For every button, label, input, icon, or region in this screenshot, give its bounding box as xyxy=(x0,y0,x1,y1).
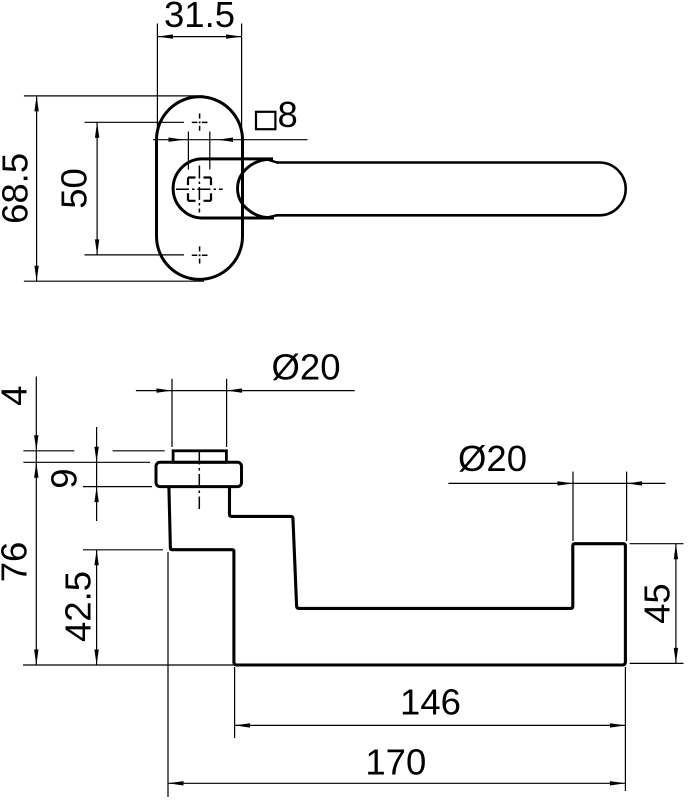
screw hole cross bottom xyxy=(192,246,208,263)
svg-text:45: 45 xyxy=(637,583,678,624)
dimension 146 xyxy=(235,667,626,791)
dimension 170 xyxy=(168,552,625,797)
svg-text:8: 8 xyxy=(278,94,298,135)
square spindle hole (hidden/dashed) xyxy=(188,178,211,201)
dimension 4/76 line xyxy=(35,377,37,666)
svg-text:76: 76 xyxy=(0,542,35,583)
dimension 45 xyxy=(630,544,684,664)
dimension Ø20 left xyxy=(136,379,355,447)
svg-text:Ø20: Ø20 xyxy=(458,438,527,479)
center lines of square hole xyxy=(176,166,223,213)
collar center line xyxy=(198,452,200,510)
dimension square-8 xyxy=(153,132,308,170)
lever neck with round cap xyxy=(173,159,274,218)
dimension Ø20 right xyxy=(448,472,665,541)
screw hole cross top xyxy=(192,114,208,131)
svg-text:31.5: 31.5 xyxy=(164,0,235,35)
dimension 4 extension lines xyxy=(23,451,164,463)
svg-text:68.5: 68.5 xyxy=(0,153,36,224)
svg-text:4: 4 xyxy=(0,386,35,406)
dimension 9 xyxy=(83,427,152,521)
svg-text:170: 170 xyxy=(365,741,426,782)
bend tangent connectors xyxy=(268,160,279,218)
svg-text:42.5: 42.5 xyxy=(57,571,98,642)
spindle boss stub xyxy=(173,451,226,463)
rosette oval outline xyxy=(157,97,243,280)
handle body outline xyxy=(169,487,626,665)
dimension 31.5 xyxy=(157,24,241,141)
inner bend arc xyxy=(238,159,271,217)
dimension 68.5 xyxy=(24,96,204,281)
lever grip bar xyxy=(276,163,626,216)
square symbol + 8 label xyxy=(256,112,275,129)
collar xyxy=(156,462,242,486)
bottom edge extension line xyxy=(23,664,233,666)
svg-text:146: 146 xyxy=(400,682,461,723)
svg-text:50: 50 xyxy=(54,168,95,209)
svg-text:9: 9 xyxy=(43,468,84,488)
svg-text:Ø20: Ø20 xyxy=(272,346,341,387)
dimension 50 xyxy=(85,122,185,255)
dimension 42.5 xyxy=(83,550,163,665)
